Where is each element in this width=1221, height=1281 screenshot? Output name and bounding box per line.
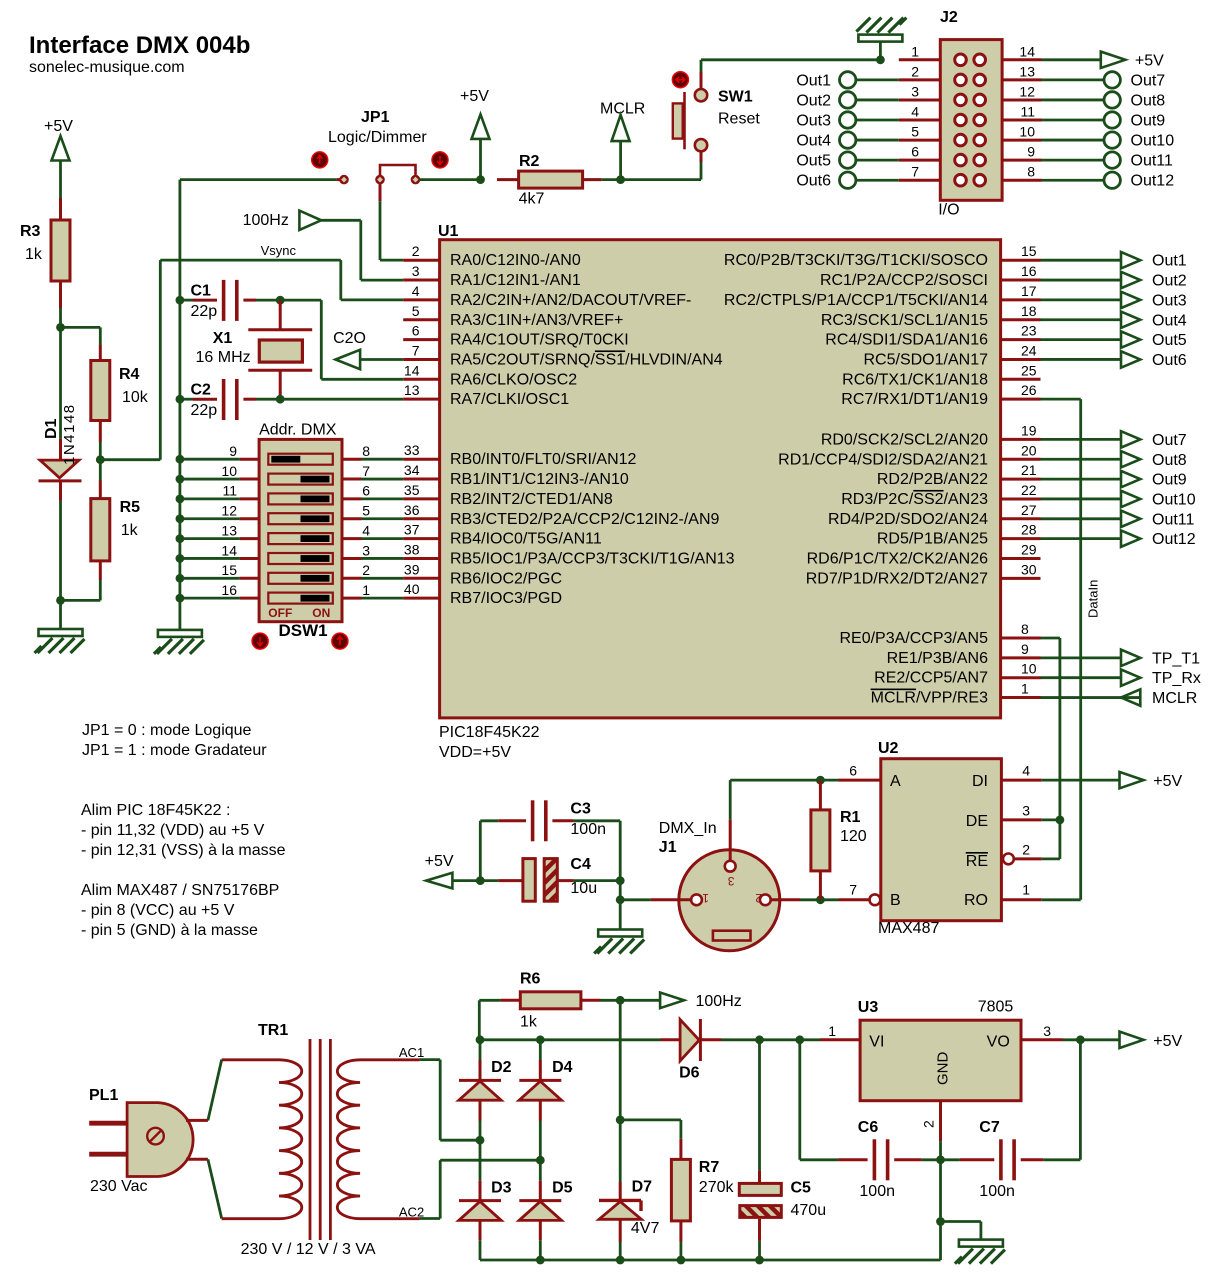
- connector J2 pin 7: [899, 164, 941, 181]
- svg-text:1k: 1k: [520, 1014, 538, 1031]
- dip switch DSW1 OFF/ON: [268, 606, 330, 620]
- terminal Out2: [796, 92, 898, 110]
- svg-text:13: 13: [221, 522, 237, 538]
- wire: [939, 1160, 942, 1222]
- IC U2 pin 2 (RE): [1003, 841, 1042, 864]
- wire: [61, 327, 101, 345]
- wire RE0 to U2 DE: [1041, 638, 1060, 820]
- svg-text:230 V / 12 V / 3 VA: 230 V / 12 V / 3 VA: [241, 1241, 376, 1258]
- connector J2 label: [940, 9, 958, 26]
- svg-text:2: 2: [911, 63, 919, 79]
- svg-text:TP_Rx: TP_Rx: [1152, 670, 1201, 687]
- capacitor C2: [191, 379, 237, 420]
- IC U2 labels: [890, 773, 988, 909]
- node B-R1: [816, 895, 825, 904]
- svg-text:6: 6: [412, 323, 420, 339]
- svg-text:6: 6: [849, 763, 857, 779]
- net arrow Out12: [1041, 530, 1196, 548]
- svg-text:7: 7: [412, 342, 420, 358]
- dip switch DSW1 pin 14: [176, 542, 260, 563]
- svg-text:27: 27: [1021, 502, 1037, 518]
- svg-text:Out1: Out1: [796, 72, 831, 89]
- connector J1 pin 2: [755, 891, 771, 905]
- svg-text:J1: J1: [659, 839, 677, 856]
- IC U2 label: [878, 740, 899, 757]
- capacitor C3 pin right: [552, 819, 573, 822]
- svg-text:5: 5: [412, 303, 420, 319]
- IC U1 label: [438, 223, 459, 240]
- transformer TR1 secondary coil: [337, 1060, 419, 1219]
- terminal Out9: [1042, 112, 1166, 130]
- IC U2 pin 7 (B): [839, 882, 881, 906]
- svg-text:RA2/C2IN+/AN2/DACOUT/VREF-: RA2/C2IN+/AN2/DACOUT/VREF-: [450, 292, 691, 309]
- svg-text:Alim MAX487 / SN75176BP: Alim MAX487 / SN75176BP: [81, 882, 279, 899]
- diode D6 pin right: [700, 1038, 721, 1041]
- svg-text:2: 2: [412, 243, 420, 259]
- dip switch DSW1 label: [279, 621, 328, 640]
- svg-text:+5V: +5V: [460, 88, 489, 105]
- svg-text:3: 3: [362, 542, 370, 558]
- svg-text:- pin 11,32 (VDD) au +5 V: - pin 11,32 (VDD) au +5 V: [81, 822, 265, 839]
- svg-text:7805: 7805: [978, 999, 1014, 1016]
- capacitor C2 pin right: [243, 398, 280, 401]
- connector J2 pin 6: [899, 144, 941, 161]
- IC U1 pin 3: [403, 263, 581, 289]
- svg-text:RA6/CLKO/OSC2: RA6/CLKO/OSC2: [450, 371, 577, 388]
- node D1-R5-gnd: [56, 596, 65, 605]
- resistor R4: [91, 361, 149, 421]
- IC U2 part number: [878, 920, 939, 937]
- note alim MAX487: [81, 882, 279, 939]
- node C6-rail: [795, 1035, 804, 1044]
- IC U1 pin 10: [874, 661, 1040, 687]
- svg-text:VDD=+5V: VDD=+5V: [439, 744, 511, 761]
- capacitor C4 label: [570, 856, 597, 897]
- wire: [61, 580, 101, 600]
- terminal Out12: [1042, 172, 1175, 190]
- net arrow TP_T1: [1041, 650, 1201, 668]
- subtitle text: [29, 59, 185, 76]
- svg-text:RB4/IOC0/T5G/AN11: RB4/IOC0/T5G/AN11: [450, 531, 602, 548]
- resistor R6 pin left: [501, 999, 521, 1002]
- node JP1-R2-+5V: [476, 175, 485, 184]
- resistor R7: [671, 1159, 734, 1221]
- svg-text:1: 1: [1021, 681, 1029, 697]
- resistor R7 pin top: [679, 1139, 682, 1160]
- svg-text:270k: 270k: [699, 1179, 735, 1196]
- IC U1 pin 35: [403, 482, 613, 508]
- IC U1 pin 6: [403, 323, 629, 349]
- svg-text:10: 10: [221, 463, 237, 479]
- node VO-C7: [1076, 1035, 1085, 1044]
- power +5V label (R3): [44, 118, 73, 135]
- marker DSW1 up: [332, 633, 348, 649]
- ground (J2 pin1, mirrored): [856, 18, 906, 42]
- wire: [800, 898, 839, 901]
- svg-text:C1: C1: [191, 283, 212, 300]
- wire: [574, 879, 621, 882]
- svg-text:MCLR: MCLR: [600, 100, 645, 117]
- zener D7 cathode lead: [619, 1182, 622, 1200]
- svg-text:Out1: Out1: [1152, 253, 1187, 270]
- wire: [941, 1158, 960, 1161]
- svg-text:RE0/P3A/CCP3/AN5: RE0/P3A/CCP3/AN5: [839, 630, 988, 647]
- connector J2 pin 8: [1002, 164, 1041, 181]
- svg-text:Alim PIC 18F45K22 :: Alim PIC 18F45K22 :: [81, 802, 230, 819]
- diode D4 cathode lead: [539, 1040, 542, 1081]
- svg-text:RA4/C1OUT/SRQ/T0CKI: RA4/C1OUT/SRQ/T0CKI: [450, 332, 629, 349]
- node AC1-D2D3: [476, 1136, 485, 1145]
- switch SW1 pin top: [700, 72, 703, 89]
- svg-text:RA3/C1IN+/AN3/VREF+: RA3/C1IN+/AN3/VREF+: [450, 312, 623, 329]
- diode D4 anode lead: [539, 1100, 542, 1160]
- capacitor C3: [533, 800, 606, 841]
- node GND-C6-C7: [936, 1155, 945, 1164]
- svg-text:4: 4: [1022, 763, 1030, 779]
- svg-text:Out2: Out2: [796, 92, 831, 109]
- IC U1 pin 4: [403, 283, 691, 309]
- node R7-rail-bottom: [677, 1256, 686, 1265]
- svg-text:9: 9: [1027, 144, 1035, 160]
- svg-text:C2: C2: [191, 382, 212, 399]
- jumper JP1 pin 3: [411, 175, 421, 185]
- terminal Out11: [1042, 152, 1174, 170]
- capacitor C1: [191, 280, 237, 321]
- capacitor C6: [858, 1119, 895, 1200]
- svg-text:11: 11: [1020, 104, 1035, 120]
- net arrow MCLR (pin1): [1041, 689, 1198, 707]
- net arrow 100Hz (bottom): [620, 993, 742, 1011]
- net arrow Out5: [1041, 331, 1187, 349]
- svg-text:24: 24: [1021, 342, 1037, 358]
- diode D3 anode lead: [479, 1220, 482, 1260]
- wire: [480, 1038, 661, 1041]
- wire: [729, 780, 732, 819]
- svg-text:RA5/C2OUT/SRNQ/SS1/HLVDIN/AN4: RA5/C2OUT/SRNQ/SS1/HLVDIN/AN4: [450, 351, 723, 368]
- wire: [619, 1120, 622, 1182]
- svg-text:RB5/IOC1/P3A/CCP3/T3CKI/T1G/AN: RB5/IOC1/P3A/CCP3/T3CKI/T1G/AN13: [450, 550, 735, 567]
- svg-text:RE2/CCP5/AN7: RE2/CCP5/AN7: [874, 670, 988, 687]
- wire AC1: [420, 1060, 480, 1141]
- svg-text:JP1 = 1 : mode Gradateur: JP1 = 1 : mode Gradateur: [82, 742, 267, 759]
- svg-text:16: 16: [1021, 263, 1037, 279]
- transformer TR1 primary coil: [222, 1060, 302, 1219]
- svg-text:TR1: TR1: [258, 1022, 288, 1039]
- dip switch DSW1 pin 7: [342, 463, 403, 479]
- wire: [59, 308, 62, 327]
- connector J2 pin 3: [899, 83, 941, 100]
- ground (J1): [594, 930, 644, 954]
- transformer TR1 label: [258, 1022, 288, 1039]
- IC U1 pin 20: [778, 442, 1040, 468]
- diode D6 pin left: [661, 1038, 681, 1041]
- svg-text:Out6: Out6: [796, 173, 831, 190]
- terminal Out1: [796, 72, 898, 90]
- svg-text:U2: U2: [878, 740, 899, 757]
- wire: [1042, 819, 1060, 822]
- plug PL1 body: [127, 1103, 193, 1177]
- svg-text:15: 15: [1021, 243, 1037, 259]
- node J2pin1-gnd: [876, 55, 885, 64]
- svg-text:Addr. DMX: Addr. DMX: [259, 422, 337, 439]
- crystal X1 pin bottom: [279, 370, 282, 399]
- net label AC2: [399, 1205, 424, 1220]
- wire: [1042, 820, 1060, 859]
- wire: [479, 139, 482, 180]
- node D5-rail-bottom: [536, 1256, 545, 1265]
- svg-text:4: 4: [412, 283, 420, 299]
- IC U1 pin 29: [807, 542, 1041, 568]
- wire: [730, 779, 838, 782]
- svg-text:25: 25: [1021, 362, 1037, 378]
- svg-text:J2: J2: [940, 9, 958, 26]
- wire: [360, 358, 403, 361]
- connector J1 pin 1: [691, 891, 709, 905]
- diode D5 anode lead: [539, 1220, 542, 1260]
- terminal Out10: [1042, 132, 1175, 150]
- svg-text:RO: RO: [964, 892, 988, 909]
- svg-text:7: 7: [911, 164, 919, 180]
- wire: [208, 1060, 222, 1121]
- svg-text:RC1/P2A/CCP2/SOSCI: RC1/P2A/CCP2/SOSCI: [820, 272, 988, 289]
- wire: [620, 1120, 681, 1139]
- svg-text:GND: GND: [935, 1052, 952, 1086]
- svg-text:U3: U3: [858, 999, 879, 1016]
- wire: [280, 300, 403, 379]
- wire: [574, 821, 621, 881]
- node R2-MCLR: [616, 175, 625, 184]
- IC U1 pin 18: [821, 303, 1041, 329]
- node gnd-rail: [936, 1217, 945, 1226]
- svg-text:+5V: +5V: [1153, 1033, 1182, 1050]
- svg-text:R5: R5: [120, 499, 141, 516]
- svg-text:470u: 470u: [791, 1202, 827, 1219]
- capacitor C7 pin right: [1021, 1158, 1044, 1161]
- capacitor C5 pin bottom: [758, 1219, 761, 1260]
- svg-text:Out11: Out11: [1131, 153, 1174, 170]
- svg-text:6: 6: [362, 483, 370, 499]
- svg-text:Reset: Reset: [718, 111, 760, 128]
- svg-text:R7: R7: [699, 1159, 720, 1176]
- node C2-bus: [176, 395, 185, 404]
- power +5V label (C3/C4): [425, 853, 454, 870]
- wire: [620, 898, 650, 901]
- svg-text:+5V: +5V: [1153, 773, 1182, 790]
- switch SW1 pin bottom: [700, 152, 703, 162]
- svg-text:DE: DE: [966, 813, 988, 830]
- svg-text:- pin 8 (VCC) au +5 V: - pin 8 (VCC) au +5 V: [81, 902, 235, 919]
- wire: [601, 999, 621, 1002]
- connector J2 pin 10: [1002, 124, 1041, 141]
- svg-text:3: 3: [728, 874, 735, 888]
- svg-text:1: 1: [362, 582, 370, 598]
- wire: [479, 1140, 482, 1181]
- svg-text:DataIn: DataIn: [1086, 580, 1101, 618]
- IC U2 body: [881, 759, 1002, 921]
- dip switch DSW1 pin 15: [176, 562, 260, 583]
- svg-text:14: 14: [1019, 43, 1035, 59]
- diode D5 cathode lead: [539, 1160, 542, 1200]
- terminal Out7: [1042, 72, 1166, 90]
- power +5V arrow (R3): [52, 136, 70, 161]
- resistor R6 pin right: [581, 999, 601, 1002]
- svg-text:Logic/Dimmer: Logic/Dimmer: [328, 129, 427, 146]
- net arrow Out9: [1041, 471, 1187, 489]
- svg-text:3: 3: [1022, 802, 1030, 818]
- svg-text:8: 8: [1021, 621, 1029, 637]
- dip switch DSW1 switches: [268, 454, 333, 604]
- plug PL1 lead bottom: [186, 1158, 208, 1161]
- zener D7: [599, 1200, 641, 1219]
- IC U3 pin 3 (VO): [1021, 1023, 1063, 1040]
- svg-text:12: 12: [1019, 83, 1035, 99]
- connector J2 pin 11: [1002, 104, 1041, 121]
- svg-text:33: 33: [404, 442, 420, 458]
- wire: [619, 1000, 622, 1120]
- wire: [621, 162, 701, 180]
- wire: [941, 1222, 981, 1240]
- wire: [619, 141, 622, 180]
- svg-text:B: B: [890, 892, 901, 909]
- node AC2-D4D5: [536, 1156, 545, 1165]
- wire: [1042, 898, 1081, 901]
- dip switch DSW1 pin 9: [176, 443, 260, 464]
- marker JP1 up: [312, 152, 328, 168]
- svg-text:RD1/CCP4/SDI2/SDA2/AN21: RD1/CCP4/SDI2/SDA2/AN21: [778, 451, 988, 468]
- dip switch DSW1 pin 4: [342, 522, 403, 538]
- svg-text:34: 34: [404, 462, 420, 478]
- svg-text:4V7: 4V7: [631, 1220, 660, 1237]
- wire GND bus: [178, 180, 181, 631]
- diode D6: [679, 1019, 700, 1081]
- svg-text:AC1: AC1: [399, 1045, 424, 1060]
- IC U1 pin 7 name (SS1 overline): [450, 351, 723, 368]
- svg-text:SW1: SW1: [718, 89, 753, 106]
- IC U3 label: [858, 999, 1014, 1017]
- svg-text:Out10: Out10: [1131, 133, 1175, 150]
- note JP1 modes: [82, 722, 267, 759]
- svg-text:40: 40: [404, 581, 420, 597]
- svg-text:15: 15: [221, 562, 237, 578]
- switch SW1 label: [718, 89, 760, 128]
- svg-text:120: 120: [840, 828, 867, 845]
- connector J1 notch: [713, 931, 751, 941]
- diode D2: [459, 1059, 512, 1100]
- resistor R4 pin bottom: [99, 421, 102, 443]
- connector J2 body: [940, 40, 1002, 201]
- net arrow MCLR: [612, 115, 630, 141]
- svg-text:C6: C6: [858, 1119, 879, 1136]
- svg-text:1: 1: [911, 43, 919, 59]
- power +5V arrow (J2): [1042, 52, 1165, 70]
- IC U1 pin 33: [403, 442, 636, 468]
- svg-text:RC3/SCK1/SCL1/AN15: RC3/SCK1/SCL1/AN15: [821, 312, 988, 329]
- IC U1 pin 17: [724, 283, 1041, 309]
- svg-text:JP1: JP1: [361, 109, 390, 126]
- net arrow TP_Rx: [1041, 670, 1201, 688]
- wire: [619, 900, 622, 930]
- node R6-100Hz-D7: [616, 996, 625, 1005]
- label Addr. DMX: [259, 422, 337, 439]
- svg-text:C3: C3: [570, 801, 591, 818]
- svg-text:16: 16: [221, 582, 237, 598]
- wire: [59, 501, 62, 601]
- dip switch DSW1 pin 5: [342, 503, 403, 519]
- svg-text:100n: 100n: [979, 1183, 1015, 1200]
- capacitor C4 plate +: [523, 859, 535, 902]
- svg-text:3: 3: [412, 263, 420, 279]
- IC U1 pin 38: [403, 541, 734, 567]
- IC U1 pin 30: [806, 561, 1041, 587]
- svg-text:R6: R6: [520, 971, 541, 988]
- resistor R6: [520, 971, 581, 1031]
- zener D7 anode lead: [619, 1219, 622, 1260]
- connector J2 label I/O: [938, 202, 959, 219]
- svg-text:X1: X1: [213, 330, 233, 347]
- node C3-C4: [476, 876, 485, 885]
- svg-text:9: 9: [229, 443, 237, 459]
- svg-text:29: 29: [1021, 542, 1037, 558]
- terminal Out4: [796, 132, 898, 150]
- IC U3 pin 1 (VI): [820, 1023, 860, 1040]
- wire: [939, 1141, 942, 1160]
- svg-text:12: 12: [221, 503, 237, 519]
- diode D1 pin top: [59, 327, 62, 460]
- IC U1 pin 15: [724, 243, 1041, 269]
- IC U1 pin 1 name (MCLR overline): [871, 690, 988, 707]
- wire: [879, 42, 882, 60]
- svg-text:Out7: Out7: [1152, 432, 1187, 449]
- IC U1 pin 36: [403, 502, 719, 528]
- dip switch DSW1 pin 13: [176, 522, 260, 543]
- svg-text:RD7/P1D/RX2/DT2/AN27: RD7/P1D/RX2/DT2/AN27: [806, 570, 988, 587]
- svg-text:3: 3: [1043, 1023, 1051, 1039]
- node D7-rail-bottom: [616, 1256, 625, 1265]
- net arrow Out10: [1041, 491, 1196, 509]
- svg-text:5: 5: [911, 124, 919, 140]
- svg-text:4k7: 4k7: [519, 191, 545, 208]
- resistor R7 pin bottom: [679, 1221, 682, 1260]
- resistor R3 pin bottom: [59, 281, 62, 308]
- wire: [59, 600, 62, 629]
- wire: [701, 60, 880, 72]
- svg-text:23: 23: [1021, 323, 1037, 339]
- wire: [922, 1158, 941, 1161]
- wire: [208, 1159, 222, 1218]
- transformer TR1 core: [310, 1039, 330, 1240]
- resistor R1: [811, 809, 867, 871]
- IC U2 pin 3 (DE): [1001, 802, 1041, 820]
- svg-text:RD0/SCK2/SCL2/AN20: RD0/SCK2/SCL2/AN20: [821, 431, 988, 448]
- IC U1 pin 1: [1001, 681, 1041, 698]
- node R4-R5-Vsync: [96, 455, 105, 464]
- node A-R1: [816, 776, 825, 785]
- wire: [99, 442, 102, 460]
- connector J2 pin holes: [955, 54, 986, 186]
- svg-text:10: 10: [1019, 124, 1035, 140]
- svg-text:100n: 100n: [859, 1183, 895, 1200]
- svg-text:Vsync: Vsync: [261, 243, 297, 258]
- node C1-X1: [276, 296, 285, 305]
- svg-text:4: 4: [362, 522, 370, 538]
- IC U1 pin 22: [1001, 482, 1041, 499]
- power +5V arrow (U3): [1080, 1032, 1182, 1050]
- svg-text:Interface DMX 004b: Interface DMX 004b: [29, 32, 250, 59]
- wire: [619, 881, 622, 900]
- wire: [479, 1000, 500, 1040]
- svg-text:DMX_In: DMX_In: [659, 820, 717, 837]
- svg-text:13: 13: [1019, 63, 1035, 79]
